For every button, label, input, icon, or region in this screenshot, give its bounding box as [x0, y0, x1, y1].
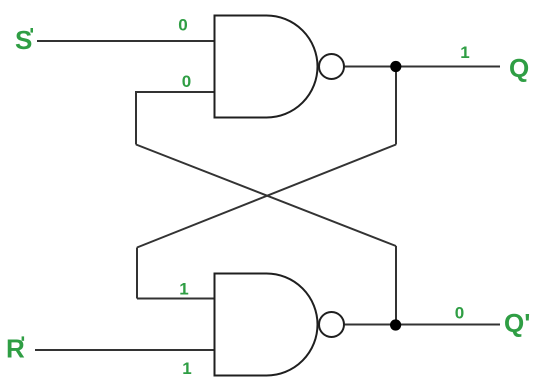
- wire U2 pin A stub: [137, 298, 215, 300]
- wire vertical down to U2 pin A level: [136, 248, 138, 299]
- svg-text:0: 0: [182, 72, 191, 91]
- NAND gate U2 inversion bubble: [319, 312, 344, 337]
- wire R' input to U2 pin B: [35, 349, 215, 351]
- wire diagonal feedback Q' to U1 pin B: [136, 145, 396, 247]
- wire vertical from U1 pin B down: [135, 91, 137, 145]
- svg-text:Q': Q': [504, 308, 530, 338]
- wire U2 output to Q': [345, 324, 501, 326]
- wire U1 pin B stub: [136, 91, 215, 93]
- wire U1 output to Q: [345, 66, 501, 68]
- svg-text:Q: Q: [509, 53, 529, 83]
- wire S' input to U1 pin A: [37, 40, 215, 42]
- NAND gate U2 body: [215, 274, 318, 376]
- junction node Q: [390, 61, 401, 72]
- wire diagonal feedback Q to U2 pin A: [137, 145, 396, 248]
- svg-text:0: 0: [178, 16, 187, 35]
- NAND gate U1 body: [215, 16, 318, 118]
- wire vertical down from Q node: [395, 67, 397, 145]
- NAND gate U1 inversion bubble: [319, 54, 344, 79]
- svg-text:S: S: [15, 25, 32, 55]
- wire vertical down to Q' node: [395, 246, 397, 325]
- svg-text:1: 1: [179, 280, 188, 299]
- junction node Q': [390, 319, 401, 330]
- svg-text:0: 0: [455, 304, 464, 323]
- svg-text:1: 1: [460, 43, 469, 62]
- svg-text:1: 1: [182, 359, 191, 378]
